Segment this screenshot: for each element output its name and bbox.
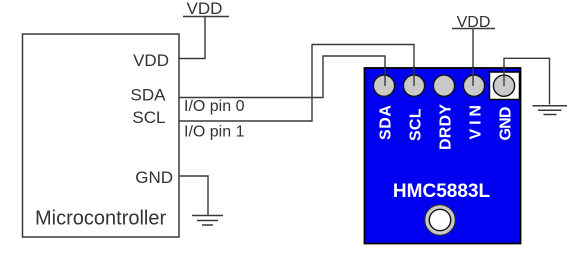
svg-text:HMC5883L: HMC5883L [393,181,491,202]
svg-text:I/O pin 1: I/O pin 1 [184,124,245,141]
svg-text:GND: GND [135,168,173,187]
svg-text:DRDY: DRDY [438,104,455,151]
svg-text:I/O pin 0: I/O pin 0 [184,98,245,115]
svg-text:VDD: VDD [187,0,223,18]
svg-text:VIN: VIN [468,105,485,140]
svg-text:SCL: SCL [408,108,425,141]
svg-text:SDA: SDA [378,105,395,141]
svg-text:VDD: VDD [133,51,169,70]
svg-text:SDA: SDA [131,86,167,105]
svg-text:GND: GND [498,106,515,141]
svg-text:SCL: SCL [132,108,165,127]
svg-text:Microcontroller: Microcontroller [35,208,166,230]
